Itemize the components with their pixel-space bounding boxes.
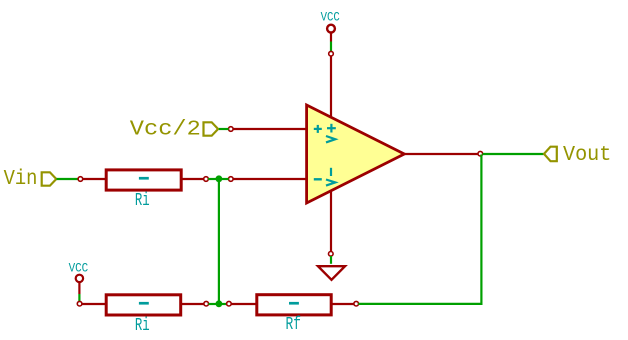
op-amp V+ power pin	[329, 51, 334, 117]
svg-text:Ri: Ri	[135, 191, 150, 211]
svg-text:VCC: VCC	[321, 9, 340, 24]
pin name label V- (rotated)	[326, 168, 335, 186]
op-amp V- power pin	[329, 191, 334, 256]
wire Rf to output node (feedback)	[358, 155, 481, 304]
wire junction to op-amp inverting pin	[222, 178, 229, 180]
wire Ri (bottom) to junction B	[209, 303, 217, 305]
wire VCC to op-amp V+ pin	[330, 42, 332, 52]
wire junction A down to junction B	[218, 182, 220, 302]
svg-text:Vout: Vout	[563, 144, 611, 167]
svg-text:Rf: Rf	[286, 315, 302, 335]
wire Vin to resistor Ri (top)	[57, 178, 79, 180]
resistor Ri (top)	[78, 170, 208, 211]
resistor Ri (bottom)	[77, 295, 208, 336]
resistor Rf	[227, 295, 359, 335]
op-amp U1	[229, 51, 483, 256]
junction node A (top)	[216, 175, 223, 182]
svg-text:Vin: Vin	[4, 168, 38, 191]
plus marker non-inverting input	[314, 125, 322, 133]
wire Ri (top) to junction	[208, 178, 216, 180]
wire junction B to resistor Rf	[222, 303, 227, 305]
power symbol VCC (bottom)	[69, 261, 89, 294]
op-amp inverting input pin	[229, 177, 308, 182]
power symbol VCC (top)	[321, 9, 340, 41]
wire output to Vout	[483, 153, 544, 155]
global label Vin	[4, 168, 57, 191]
minus marker inverting input	[314, 178, 322, 180]
wire op-amp V- pin to ground	[330, 256, 332, 264]
pin name label V+ (rotated)	[326, 124, 336, 143]
op-amp output pin	[404, 151, 483, 156]
wire VCC (bottom) to resistor Ri (bottom)	[78, 294, 80, 302]
global label Vout	[544, 144, 611, 167]
op-amp non-inverting input pin	[229, 127, 308, 132]
svg-text:Ri: Ri	[135, 316, 150, 336]
svg-text:Vcc/2: Vcc/2	[130, 118, 201, 141]
svg-text:VCC: VCC	[69, 261, 89, 276]
junction node B (bottom)	[216, 300, 223, 307]
wire Vcc/2 to op-amp non-inverting pin	[219, 128, 229, 130]
ground	[318, 266, 345, 280]
value label - (Ri top)	[139, 177, 149, 180]
value label - (Ri bottom)	[139, 302, 149, 305]
global label Vcc/2	[130, 118, 218, 141]
value label - (Rf)	[289, 302, 299, 305]
